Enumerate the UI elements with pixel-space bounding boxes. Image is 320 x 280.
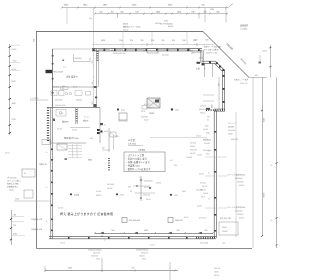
svg-text:655: 655 [205,40,208,42]
svg-text:0000-0: 0000-0 [96,195,101,197]
electrical panel cluster [97,129,100,131]
svg-text:000タイル 000: 000タイル 000 [206,52,217,55]
bottom dimension line 2 [45,270,178,272]
svg-text:00-000: 00-000 [107,188,112,190]
svg-text:000000: 000000 [139,256,145,258]
svg-text:スペーシア(居室側)0000: スペーシア(居室側)0000 [227,174,245,177]
dimension arrow top right [228,4,233,8]
roof overhang line top-left [52,48,92,50]
svg-text:910: 910 [112,230,115,232]
dark dot center [149,187,151,189]
svg-text:000: 000 [207,117,210,119]
door symbol on left wall [46,70,53,73]
svg-text:1820: 1820 [156,11,160,13]
svg-text:スペーシア(居室側)0000: スペーシア(居室側)0000 [227,206,245,209]
svg-text:00: 00 [208,173,210,175]
svg-text:00 0000: 00 0000 [200,106,206,108]
svg-text:0000: 0000 [182,191,186,193]
porch step lines [218,77,220,109]
top wall module dark marks [93,49,95,51]
small hatched box [110,132,116,137]
svg-text:000: 000 [102,148,105,150]
svg-text:0000 000: 0000 000 [93,253,100,255]
svg-text:910: 910 [92,102,94,105]
porch step hatch [206,109,225,111]
site boundary right [252,77,254,248]
closet line in bedroom [74,61,91,63]
kitchen fixtures row [51,91,57,96]
svg-text:655: 655 [216,11,219,13]
interior hatched wall strip [75,108,77,124]
svg-text:0000: 0000 [205,126,209,128]
svg-text:637: 637 [135,11,138,13]
svg-text:0 00000: 0 00000 [186,157,192,159]
svg-text:2440: 2440 [13,234,17,236]
svg-text:00 00: 00 00 [184,217,188,219]
svg-text:00000 000: 00000 000 [240,83,248,85]
svg-text:0000字000(00)0: 0000字000(00)0 [136,249,148,252]
wall notch vertical [200,50,202,63]
svg-text:000 00: 000 00 [156,183,161,185]
bathtub [56,110,66,117]
right wall tick marks [214,131,216,133]
svg-text:000: 000 [92,87,95,89]
symbol box 1 [122,218,127,223]
right upper dim line [269,45,271,78]
svg-text:00 000: 00 000 [150,245,155,247]
svg-text:00000: 00000 [263,193,265,198]
interior wall horizontal lower [47,107,100,109]
svg-text:910: 910 [92,61,94,64]
svg-text:00 000 00: 00 000 00 [144,187,152,189]
svg-text:0000: 0000 [96,259,100,261]
outside box (terrace) [22,169,35,177]
svg-text:00 000: 00 000 [168,26,173,28]
svg-text:000-00: 000-00 [202,186,207,188]
svg-text:910: 910 [92,82,94,85]
svg-text:455: 455 [205,230,208,232]
svg-text:000 00 00: 000 00 00 [199,109,207,111]
svg-text:0000: 0000 [164,21,168,23]
site boundary diagonal (road) [203,32,249,78]
svg-text:2730: 2730 [12,119,16,121]
svg-text:0000: 0000 [222,243,226,245]
svg-text:000-00: 000-00 [190,146,195,148]
svg-text:00000: 00000 [123,24,128,26]
small divider [102,149,110,151]
svg-text:9100: 9100 [263,118,265,122]
top dimension line 1 [62,7,228,9]
svg-text:910: 910 [161,40,164,42]
svg-text:0000: 0000 [120,194,124,196]
svg-text:00: 00 [208,199,210,201]
site boundary bottom [37,248,253,250]
svg-text:000 00: 000 00 [239,185,244,187]
svg-text:0 00: 0 00 [191,53,194,55]
dark step marks [197,62,201,64]
electrical dots row [70,193,72,195]
column square [119,113,127,120]
svg-text:0000: 0000 [175,110,179,112]
svg-text:000 0000: 000 0000 [55,100,62,102]
svg-text:000 000: 000 000 [214,268,220,270]
interior wall bars top [97,51,99,62]
right dim short [249,77,267,79]
svg-text:750: 750 [255,75,258,77]
svg-text:00 000: 00 000 [72,130,77,132]
svg-text:0 00: 0 00 [63,67,66,69]
dim arrows on bottom line [100,232,104,234]
svg-text:000-0000: 000-0000 [228,130,235,132]
svg-text:00000 00: 00000 00 [141,253,148,255]
left wall tick marks [51,149,53,151]
fixture box [42,140,50,145]
svg-text:テラス先行: テラス先行 [30,97,39,100]
porch edge [203,94,214,96]
svg-text:00000 00: 00000 00 [91,256,98,258]
svg-text:00-00: 00-00 [146,199,150,201]
bottom wall double [49,236,216,238]
svg-text:0000 000: 0000 000 [190,150,197,152]
bottom dimension line with arrows [95,233,213,235]
svg-text:00 0000: 00 0000 [190,143,196,145]
left wall lower double [50,107,52,239]
svg-text:00 0000: 00 0000 [200,183,206,185]
right lower box [219,222,238,235]
svg-text:押え 積み上がりますので 伝言板参照: 押え 積み上がりますので 伝言板参照 [60,211,113,216]
svg-text:00000: 00000 [214,272,219,274]
svg-text:0 0 +0: 0 0 +0 [84,117,89,119]
svg-text:0000000: 0000000 [237,182,244,184]
porch wall dark ticks [223,75,225,77]
top wall end ticks [92,48,94,51]
electrical dot washroom [117,108,119,110]
interior dimension line vertical [93,52,95,107]
stair bottom marks [65,158,68,160]
svg-text:WH-1 05209: WH-1 05209 [54,72,64,74]
svg-text:0000: 0000 [142,259,146,261]
hatched fixture [57,144,67,150]
svg-text:000 0000: 000 0000 [107,184,114,186]
svg-text:00: 00 [130,191,132,193]
eaves line right [235,112,237,237]
svg-text:GL±0 000: GL±0 000 [200,243,208,245]
svg-text:00000: 00000 [15,199,20,201]
wall junction mark lower [95,97,97,99]
left dim leaders [10,44,20,46]
svg-text:00 00: 00 00 [141,111,145,113]
svg-text:000 0000: 000 0000 [141,117,148,119]
svg-text:910: 910 [177,230,180,232]
svg-text:00-000 000: 00-000 000 [144,181,153,183]
symbol box 2 [168,218,173,223]
leader lines across right wall [205,156,227,158]
left lower dim leaders [11,215,24,217]
svg-text:000: 000 [206,133,209,135]
dark porch marks [206,108,210,110]
dim connector [204,8,206,23]
svg-text:1800: 1800 [68,268,72,270]
chamfer dark marks [219,66,221,68]
right short tick [259,55,261,63]
wall bars [108,158,110,171]
staircase [68,145,82,147]
top wall double line [92,47,202,49]
svg-text:00000-0000 000: 00000-0000 000 [113,53,125,55]
svg-text:00 00: 00 00 [199,58,203,60]
svg-text:00 00: 00 00 [104,131,108,133]
svg-text:00 000: 00 000 [262,51,267,53]
svg-text:0000: 0000 [62,86,66,88]
svg-text:0000 00: 0000 00 [76,100,82,102]
svg-text:000000: 000000 [155,23,160,25]
svg-text:000: 000 [170,160,173,162]
svg-text:0000000: 0000000 [237,214,244,216]
svg-text:910: 910 [182,40,185,42]
svg-text:00: 00 [271,165,273,167]
closet box bottom [61,87,69,90]
svg-text:910: 910 [194,40,197,42]
chamfer wall [216,61,224,69]
svg-text:00 000: 00 000 [57,129,62,131]
svg-text:絶縁帯000: 絶縁帯000 [203,139,211,142]
svg-text:000 00: 000 00 [214,275,219,277]
stair stringers [72,144,74,158]
svg-text:00000: 00000 [5,153,10,155]
genkan doorway lines [204,64,206,78]
notch dark marks [209,62,211,64]
svg-text:1820: 1820 [12,103,16,105]
svg-text:00-000: 00-000 [190,153,195,155]
dim connector [225,8,227,23]
right dimension line [262,78,264,237]
svg-text:910: 910 [130,40,133,42]
svg-text:00: 00 [207,120,209,122]
svg-text:0000 000: 0000 000 [143,195,150,197]
svg-text:00: 00 [46,152,48,154]
small dimension line above wall [93,44,213,46]
roof finish line [14,200,50,202]
interior vline [113,135,115,150]
shaft box [147,98,160,108]
dim witness line long [93,8,95,49]
dim witness line [66,8,68,25]
building left wall line upper [52,49,54,107]
svg-text:00: 00 [24,173,26,175]
small box lower left [24,190,33,198]
svg-text:給湯器: 給湯器 [74,193,79,196]
svg-text:000 00: 000 00 [199,174,204,176]
svg-text:0000-000: 0000-000 [75,58,82,60]
svg-text:000: 000 [128,187,131,189]
svg-text:00-00: 00-00 [144,120,148,122]
witness lines boundary to wall [151,31,153,45]
svg-text:00: 00 [46,187,48,189]
site boundary left [36,32,38,249]
svg-text:000000: 000000 [196,136,201,138]
svg-text:(CB 5840): (CB 5840) [128,144,137,146]
svg-text:1820: 1820 [101,40,105,42]
small marks left of closet [62,60,64,62]
interior wall vertical (bedroom/LDK) [96,49,98,108]
svg-text:455: 455 [110,11,113,13]
svg-text:000: 000 [90,138,93,140]
porch right wall [221,70,223,110]
svg-text:000 0000: 000 0000 [162,55,169,57]
svg-text:(0-0-): (0-0-) [121,110,125,112]
svg-text:00 000 00: 00 000 00 [199,217,207,219]
bottom wall right hatch [196,237,215,239]
interior wall bars [76,109,78,123]
svg-text:0000: 0000 [174,195,178,197]
ceiling line [150,137,207,139]
svg-text:00-0000: 00-0000 [204,143,210,145]
svg-text:000 0000 000: 000 0000 000 [129,220,140,222]
svg-text:00 000: 00 000 [197,206,202,208]
svg-text:910: 910 [140,40,143,42]
marks near wall [86,92,91,96]
svg-text:00: 00 [271,220,273,222]
svg-text:746: 746 [13,214,16,216]
svg-text:0 000: 0 000 [59,113,63,115]
long window top wall [158,49,186,51]
note box [124,152,165,172]
dim connector [198,14,200,19]
top dimension line 2 [95,13,227,15]
svg-text:000(0000+00)000: 000(0000+00)000 [88,250,101,252]
svg-text:00: 00 [104,124,106,126]
small dark blob [100,123,103,125]
svg-text:910: 910 [119,40,122,42]
wall step horizontal (dark) [214,108,225,110]
piping branches [133,185,150,187]
interior wall vertical center [99,108,101,143]
svg-text:2275: 2275 [12,81,16,83]
svg-text:(居室側): (居室側) [228,126,235,129]
svg-text:1820: 1820 [177,11,181,13]
svg-text:00 00: 00 00 [73,87,77,89]
svg-text:000 0000: 000 0000 [52,87,59,89]
window box right [192,49,201,53]
left dimension line [9,44,11,135]
svg-text:910: 910 [132,268,135,270]
svg-text:00000000: 00000000 [235,211,243,213]
piping cluster vertical [140,176,142,201]
lower divider [70,127,90,129]
dim connector [117,14,119,18]
svg-text:CL: CL [62,88,64,90]
svg-text:000000: 000000 [222,231,228,233]
svg-text:910: 910 [13,225,16,227]
svg-text:1820: 1820 [144,230,148,232]
junction dark marks [94,86,97,88]
svg-text:00000000: 00000000 [235,178,243,180]
window symbol with box on top wall [147,49,158,53]
svg-text:000 000 0000: 000 000 0000 [55,105,65,107]
svg-text:000 0: 000 0 [201,197,205,199]
interior wall horizontal [52,86,98,88]
svg-text:910: 910 [151,40,154,42]
svg-text:910: 910 [172,40,175,42]
interior wall horizontal stair top [50,142,86,144]
svg-text:0000 00: 0000 00 [200,190,206,192]
svg-text:00000: 00000 [12,69,17,71]
window glazing lines top wall [99,49,110,51]
svg-text:0000: 0000 [206,154,210,156]
svg-text:00 000: 00 000 [203,129,208,131]
svg-text:(00): (00) [89,18,92,20]
svg-text:0000: 0000 [174,165,178,167]
right wall lower double [213,110,215,238]
svg-text:910: 910 [191,11,194,13]
svg-text:庇先 先行工事: 庇先 先行工事 [220,217,231,220]
svg-text:1F 000 0000: 1F 000 0000 [7,178,17,180]
left wall insulation bars [47,108,49,143]
right margin line [276,78,278,249]
svg-text:00000: 00000 [228,134,233,136]
svg-text:00: 00 [46,221,48,223]
svg-text:00 000: 00 000 [96,191,101,193]
svg-text:00 0000000: 00 0000000 [203,150,212,152]
svg-text:00-000: 00-000 [203,193,208,195]
witness line from boundary [122,31,124,48]
left wall upper tick marks [52,55,54,57]
electrical dot LDK [171,108,173,110]
interior vline [108,128,110,152]
bottom wall tick marks [68,237,70,239]
svg-text:0000-0: 0000-0 [200,113,205,115]
site boundary top [36,31,203,33]
svg-text:0000 000: 0000 000 [175,220,183,222]
svg-text:000-0: 000-0 [149,108,153,110]
svg-text:0000: 0000 [212,104,214,108]
left lower dimension line [11,210,13,245]
svg-text:000 00: 000 00 [239,218,244,220]
svg-text:00 000: 00 000 [197,155,202,157]
svg-text:00000: 00000 [222,227,227,229]
svg-text:0000 000: 0000 000 [231,139,238,141]
svg-text:000 00: 000 00 [60,243,65,245]
svg-text:00 000: 00 000 [58,208,63,210]
svg-text:910: 910 [99,11,102,13]
leader to left [30,99,48,101]
bottom vertical connectors [101,258,103,272]
svg-text:00000: 00000 [12,49,17,51]
svg-text:455: 455 [120,11,123,13]
svg-text:00000: 00000 [9,190,14,192]
svg-text:0000: 0000 [13,61,17,63]
wall notch horizontal [202,60,216,62]
